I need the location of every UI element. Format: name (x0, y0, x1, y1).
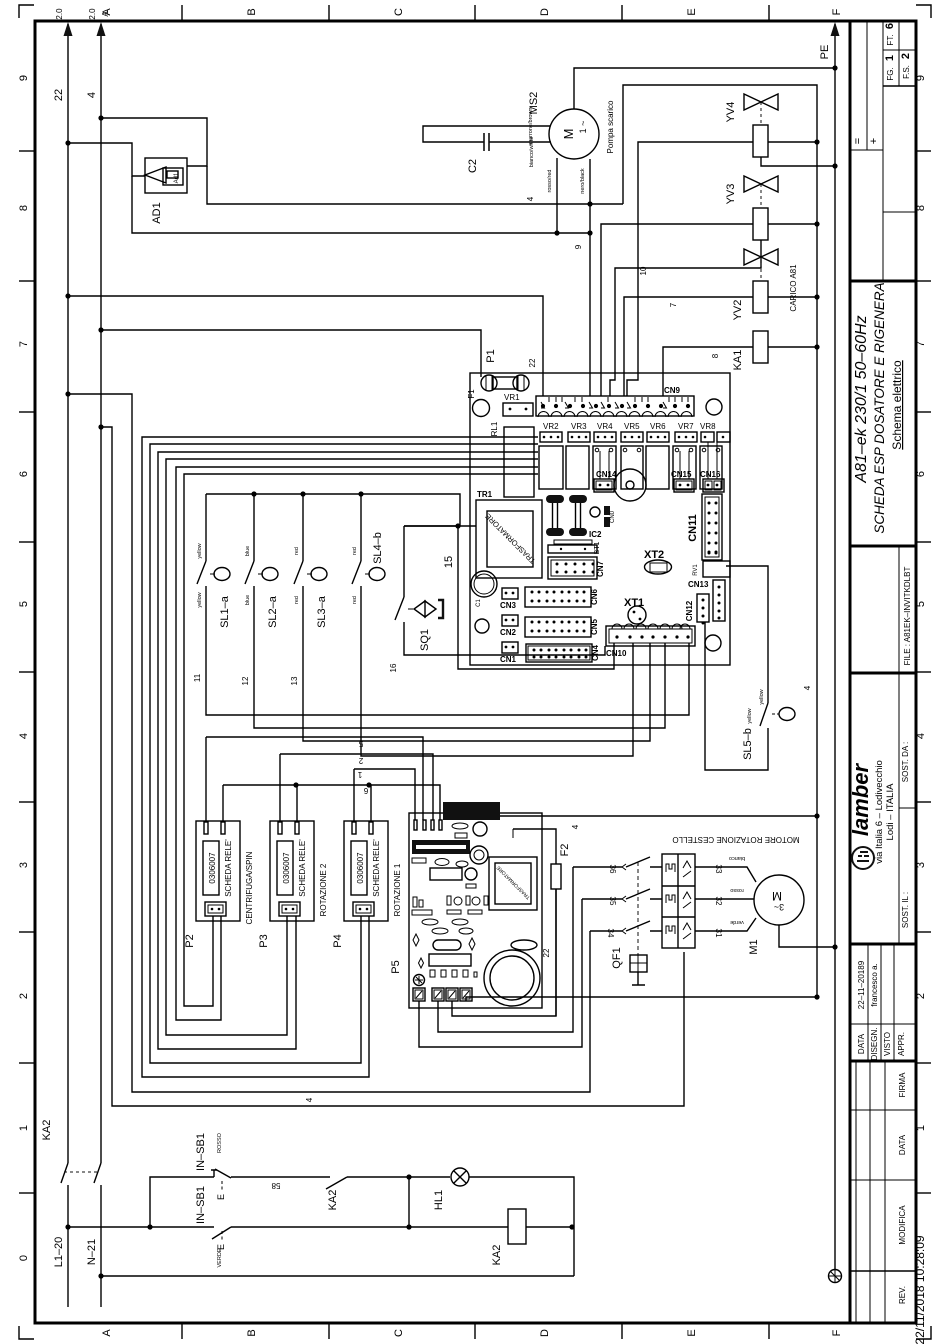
hole (475, 619, 489, 633)
capacitor C2 (484, 133, 489, 151)
level switch SL4-b (352, 494, 633, 756)
svg-text:francesco a.: francesco a. (870, 963, 879, 1007)
svg-text:verde: verde (730, 919, 744, 925)
svg-text:32: 32 (714, 897, 723, 906)
FG FT FS cells (884, 23, 912, 81)
circuit breaker QF1 (573, 857, 662, 985)
wire 22 horizontal y233 (132, 176, 593, 236)
svg-text:6: 6 (915, 471, 927, 477)
svg-text:L1–20: L1–20 (53, 1237, 65, 1268)
svg-text:PE: PE (819, 45, 831, 60)
SL common wire (206, 491, 476, 526)
svg-text:0: 0 (18, 1255, 30, 1261)
CN2 (502, 615, 518, 626)
wire 4 to rail (500, 813, 820, 829)
svg-text:CN2: CN2 (500, 628, 517, 637)
motor M1 (695, 855, 838, 955)
switch IN-SB1 verde (212, 1227, 231, 1239)
svg-text:IN–SB1: IN–SB1 (195, 1186, 207, 1224)
svg-text:E: E (686, 8, 698, 15)
right edge ticks (916, 151, 931, 1193)
motor top lead to PE (574, 68, 835, 109)
svg-text:0306007: 0306007 (208, 852, 217, 884)
svg-text:22: 22 (542, 948, 551, 957)
svg-text:Schema elettrico: Schema elettrico (890, 360, 904, 450)
svg-text:red: red (352, 547, 358, 555)
pressure switch SQ1 (389, 526, 605, 672)
fuse F2 wire 22 (513, 829, 571, 1016)
wire 4 to F1 (98, 327, 481, 377)
svg-text:P2: P2 (184, 934, 196, 947)
svg-text:CARICO A81: CARICO A81 (789, 264, 798, 312)
svg-text:6: 6 (18, 471, 30, 477)
svg-text:4: 4 (915, 733, 927, 739)
CN7 (548, 557, 597, 579)
svg-text:blue: blue (245, 595, 251, 605)
svg-text:ROTAZIONE 1: ROTAZIONE 1 (393, 863, 402, 916)
svg-text:VR2: VR2 (543, 422, 559, 431)
svg-text:SL2–a: SL2–a (267, 595, 279, 628)
svg-text:9: 9 (18, 75, 30, 81)
svg-text:Lodi – ITALIA: Lodi – ITALIA (885, 783, 896, 841)
connector CN9 (536, 396, 694, 416)
svg-text:8: 8 (711, 353, 720, 358)
svg-text:2: 2 (18, 993, 30, 999)
board P5 (390, 802, 542, 1008)
svg-text:+: + (868, 138, 880, 144)
wires 5 2 1 6 from CN4 to P boards (206, 737, 440, 820)
svg-text:22/11/2018 10:28:09: 22/11/2018 10:28:09 (913, 1235, 927, 1344)
svg-text:FIRMA: FIRMA (898, 1072, 907, 1098)
svg-text:RV1: RV1 (693, 564, 699, 576)
CN6 (525, 587, 591, 607)
svg-text:CN3: CN3 (500, 601, 517, 610)
KA2 main contact (61, 1163, 101, 1183)
svg-text:F.S.: F.S. (902, 65, 911, 79)
svg-text:ROTAZIONE 2: ROTAZIONE 2 (319, 863, 328, 916)
net4 rail right x817 (623, 85, 817, 997)
svg-text:16: 16 (389, 663, 398, 672)
svg-text:B: B (246, 1329, 258, 1336)
left edge numbers (18, 75, 30, 1261)
top edge letters (101, 8, 843, 16)
svg-text:13: 13 (290, 676, 299, 685)
svg-text:10: 10 (639, 266, 648, 275)
svg-text:2.0: 2.0 (88, 8, 97, 20)
mains taps to bus (65, 391, 684, 1106)
svg-text:blue: blue (245, 546, 251, 556)
svg-text:F: F (831, 1329, 843, 1336)
svg-text:red: red (352, 596, 358, 604)
svg-text:rosso: rosso (730, 887, 743, 893)
svg-text:BT1: BT1 (594, 541, 601, 554)
svg-text:N–21: N–21 (86, 1239, 98, 1265)
svg-text:5: 5 (358, 739, 363, 748)
svg-text:FT.: FT. (886, 34, 895, 45)
svg-text:nero/black: nero/black (580, 168, 586, 194)
svg-text:via Italia 6 – Lodivecchio: via Italia 6 – Lodivecchio (874, 760, 885, 864)
svg-text:SCHEDA ESP DOSATORE E RIGENERA: SCHEDA ESP DOSATORE E RIGENERA (872, 282, 887, 533)
svg-text:FG.: FG. (886, 67, 895, 80)
svg-text:DISEGN.: DISEGN. (870, 1028, 879, 1061)
main board P1 (467, 349, 730, 665)
mini transformer (489, 857, 537, 910)
svg-text:D: D (539, 1329, 551, 1337)
svg-text:22–11–20189: 22–11–20189 (857, 960, 866, 1009)
svg-text:red: red (294, 596, 300, 604)
level switch SL5-b (705, 566, 812, 770)
svg-text:8: 8 (18, 205, 30, 211)
svg-text:2.0: 2.0 (55, 8, 64, 20)
FILE cell (898, 546, 900, 673)
svg-text:A: A (101, 11, 110, 17)
svg-text:VISTO: VISTO (883, 1032, 892, 1056)
regulators IC (546, 495, 616, 539)
svg-text:CN7: CN7 (596, 560, 605, 577)
svg-text:=: = (852, 138, 864, 144)
svg-text:3: 3 (915, 862, 927, 868)
motor MS2 pompa scarico (423, 65, 838, 396)
svg-text:KA1: KA1 (732, 350, 744, 371)
svg-text:rosso/red: rosso/red (547, 170, 553, 193)
svg-text:VR1: VR1 (504, 393, 520, 402)
lamp HL1 (451, 1168, 469, 1186)
svg-text:QF1: QF1 (611, 947, 623, 968)
svg-text:yellow: yellow (197, 592, 203, 607)
CN12 (697, 594, 709, 622)
bottom edge ticks (182, 1323, 769, 1339)
svg-text:VR4: VR4 (597, 422, 613, 431)
left edge ticks (19, 151, 35, 1193)
svg-text:4: 4 (305, 1097, 314, 1102)
capacitor C2 loop (423, 126, 550, 142)
wire L1 (22) (67, 24, 69, 1163)
AD1 filter (65, 115, 207, 223)
svg-text:5: 5 (18, 601, 30, 607)
svg-text:CN13: CN13 (688, 580, 709, 589)
svg-text:P3: P3 (258, 934, 270, 947)
svg-text:CN0: CN0 (610, 510, 616, 523)
svg-text:KA2: KA2 (41, 1120, 53, 1141)
svg-text:HL1: HL1 (433, 1190, 445, 1210)
svg-text:SOST. DA :: SOST. DA : (901, 742, 910, 782)
svg-text:Pompa scarico: Pompa scarico (606, 100, 615, 153)
title block (848, 21, 927, 1344)
svg-text:35: 35 (608, 897, 617, 906)
lamber cell (898, 673, 900, 944)
svg-text:Ad1: Ad1 (174, 172, 180, 183)
svg-text:TR1: TR1 (477, 490, 493, 499)
svg-text:D: D (539, 8, 551, 16)
valve YV4 (627, 94, 838, 396)
svg-text:SOST. IL :: SOST. IL : (901, 892, 910, 928)
svg-text:APPR.: APPR. (897, 1032, 906, 1056)
ground symbol (829, 1270, 842, 1283)
right edge numbers (915, 75, 927, 1131)
svg-text:MODIFICA: MODIFICA (898, 1205, 907, 1245)
svg-text:5: 5 (915, 601, 927, 607)
svg-text:YV4: YV4 (725, 102, 737, 123)
bottom connectors (414, 975, 425, 986)
valve YV2 (624, 249, 820, 396)
wire 4 horizontal y204 (207, 166, 623, 207)
corner marks (19, 5, 34, 18)
ic row (429, 954, 471, 966)
svg-text:DATA: DATA (898, 1134, 907, 1155)
svg-text:CN6: CN6 (590, 588, 599, 605)
mounting hole left (473, 400, 490, 417)
level switch SL1-a (193, 494, 689, 715)
node L1 bottom (65, 1224, 70, 1229)
revision rows (855, 1061, 857, 1323)
svg-text:IC2: IC2 (589, 530, 602, 539)
wire 22 to CN9 (65, 293, 543, 396)
nero/black lead wire 9 (589, 159, 591, 396)
CN4 (526, 644, 592, 662)
svg-text:C2: C2 (467, 159, 479, 173)
small parts (452, 823, 468, 829)
svg-text:CN16: CN16 (700, 470, 721, 479)
svg-text:3: 3 (18, 862, 30, 868)
svg-text:SQ1: SQ1 (419, 629, 431, 651)
svg-text:CN1: CN1 (500, 655, 517, 664)
thermal overload block (662, 835, 800, 948)
hole bottom right (705, 635, 721, 651)
svg-text:A81–ek 230/1 50–60Hz: A81–ek 230/1 50–60Hz (853, 315, 870, 483)
svg-text:VERDE: VERDE (217, 1248, 223, 1267)
svg-text:33: 33 (714, 865, 723, 874)
P5 bottom wires (419, 867, 820, 1047)
svg-text:P5: P5 (390, 960, 402, 973)
svg-text:B: B (246, 8, 258, 15)
svg-text:VR7: VR7 (678, 422, 694, 431)
svg-text:MOTORE ROTAZIONE CESTELLO: MOTORE ROTAZIONE CESTELLO (672, 835, 799, 844)
svg-text:CENTRIFUGA/SPIN: CENTRIFUGA/SPIN (245, 851, 254, 924)
CN1 (502, 642, 518, 653)
svg-text:SCHEDA RELE': SCHEDA RELE' (224, 839, 233, 897)
svg-text:F2: F2 (559, 844, 571, 857)
svg-text:0306007: 0306007 (356, 852, 365, 884)
svg-text:M: M (772, 889, 782, 903)
wire AD1 right feed (101, 118, 207, 166)
DATA rows (867, 944, 869, 1061)
svg-text:SCHEDA RELE': SCHEDA RELE' (372, 839, 381, 897)
svg-text:CN12: CN12 (685, 600, 694, 621)
svg-text:M: M (561, 129, 576, 140)
level switch SL2-a (241, 494, 665, 728)
svg-text:VR6: VR6 (650, 422, 666, 431)
svg-text:KA2: KA2 (491, 1245, 503, 1266)
svg-text:SL4–b: SL4–b (372, 532, 384, 564)
svg-text:AD1: AD1 (151, 202, 163, 223)
lamber logo (848, 760, 896, 869)
svg-text:3~: 3~ (774, 902, 784, 912)
CN10 (606, 626, 695, 646)
valve YV3 (601, 176, 820, 396)
svg-text:VR3: VR3 (571, 422, 587, 431)
VR1 (503, 403, 533, 416)
svg-text:YV2: YV2 (732, 300, 744, 321)
svg-text:CN4: CN4 (591, 644, 600, 661)
svg-text:F: F (831, 8, 843, 15)
svg-text:REV.: REV. (898, 1286, 907, 1304)
wire AD1 left feed (68, 143, 145, 176)
svg-text:6: 6 (363, 786, 368, 795)
svg-text:7: 7 (669, 302, 678, 307)
relay board P2 (184, 737, 254, 948)
svg-text:lamber: lamber (848, 762, 873, 836)
relay board P4 (332, 769, 402, 948)
relay RL1 (504, 427, 534, 497)
svg-text:7: 7 (915, 341, 927, 347)
bottom edge letters (101, 1329, 843, 1337)
top edge ticks (182, 5, 769, 21)
svg-text:7: 7 (18, 341, 30, 347)
svg-text:VR8: VR8 (700, 422, 716, 431)
svg-text:yellow: yellow (197, 543, 203, 558)
CN3 (502, 588, 518, 599)
svg-text:0306007: 0306007 (282, 852, 291, 884)
svg-text:4: 4 (571, 824, 580, 829)
svg-text:8: 8 (915, 205, 927, 211)
capacitor C1 (471, 571, 497, 597)
wire 15 (404, 523, 614, 669)
svg-text:9: 9 (915, 75, 927, 81)
svg-text:2: 2 (900, 53, 912, 59)
svg-text:6: 6 (884, 23, 896, 29)
svg-text:1: 1 (18, 1125, 30, 1131)
svg-text:22: 22 (528, 358, 537, 367)
svg-text:1: 1 (915, 1125, 927, 1131)
svg-text:12: 12 (241, 676, 250, 685)
svg-text:2: 2 (358, 756, 363, 765)
svg-text:CN9: CN9 (664, 386, 681, 395)
top pins (414, 820, 417, 830)
battery BT1 (548, 540, 601, 554)
level switch SL3-a (290, 494, 650, 741)
CN5 (525, 617, 591, 637)
svg-text:yellow: yellow (759, 689, 765, 704)
control circuit (41, 1120, 575, 1279)
svg-text:CN11: CN11 (687, 514, 699, 542)
jog dial (484, 950, 540, 1006)
svg-text:C: C (393, 8, 405, 16)
svg-text:SCHEDA RELE': SCHEDA RELE' (298, 839, 307, 897)
svg-text:FILE : A81EK–INVITKDLBT: FILE : A81EK–INVITKDLBT (903, 567, 912, 666)
svg-text:DATA: DATA (857, 1033, 866, 1054)
svg-text:C: C (393, 1329, 405, 1337)
coil KA2 (508, 1209, 526, 1244)
svg-text:VR5: VR5 (624, 422, 640, 431)
small pads (412, 896, 488, 934)
svg-text:F1: F1 (467, 389, 476, 399)
svg-text:1: 1 (884, 55, 896, 61)
svg-text:E: E (686, 1329, 698, 1336)
svg-text:bianco: bianco (729, 855, 745, 861)
svg-text:CN14: CN14 (596, 470, 617, 479)
relay row (539, 446, 722, 489)
CN11 (702, 494, 722, 560)
svg-text:RL1: RL1 (490, 421, 499, 436)
svg-text:ROSSO: ROSSO (217, 1132, 223, 1153)
mounting hole right (706, 399, 722, 415)
svg-text:9: 9 (574, 244, 583, 249)
big title (853, 282, 904, 533)
svg-text:36: 36 (608, 865, 617, 874)
svg-text:CN5: CN5 (590, 618, 599, 635)
svg-text:red: red (294, 547, 300, 555)
svg-text:A: A (101, 1329, 113, 1337)
PE wire right (819, 22, 842, 1283)
svg-text:34: 34 (606, 929, 615, 938)
svg-text:SL1–a: SL1–a (219, 595, 231, 628)
svg-text:1 ~: 1 ~ (578, 121, 588, 134)
svg-text:58: 58 (271, 1181, 280, 1190)
wire 10 from YV3 coil bottom (610, 240, 761, 396)
svg-text:P4: P4 (332, 934, 344, 947)
svg-text:C1: C1 (476, 599, 482, 607)
wire N (4) (100, 24, 102, 1163)
svg-text:15: 15 (443, 556, 455, 568)
mains wires (53, 8, 110, 1307)
KA2 aux contact (326, 1177, 347, 1189)
black module (443, 802, 500, 820)
svg-text:bianco/white: bianco/white (529, 137, 535, 168)
svg-text:M1: M1 (748, 939, 760, 954)
fuse F1 (481, 375, 497, 391)
svg-text:2: 2 (915, 993, 927, 999)
svg-text:XT2: XT2 (644, 549, 664, 561)
svg-text:31: 31 (714, 929, 723, 938)
svg-text:E: E (216, 1194, 226, 1200)
svg-text:22: 22 (53, 89, 65, 101)
svg-text:YV3: YV3 (725, 184, 737, 205)
svg-text:SL5–b: SL5–b (742, 728, 754, 760)
svg-text:KA2: KA2 (327, 1190, 339, 1211)
svg-text:yellow: yellow (747, 708, 753, 723)
svg-text:1: 1 (357, 770, 362, 779)
svg-text:4: 4 (803, 685, 812, 690)
RL1 output wires to bus (142, 437, 538, 1077)
relay coil KA1 (663, 331, 820, 396)
relay board P3 (258, 754, 328, 948)
svg-text:11: 11 (193, 673, 202, 682)
buzzer (614, 469, 646, 501)
rosso/red lead (556, 158, 558, 233)
N return (98, 1273, 103, 1278)
svg-text:4: 4 (526, 196, 535, 201)
switch IN-SB1 rosso (211, 1170, 217, 1177)
svg-text:P1: P1 (485, 349, 497, 362)
svg-text:4: 4 (18, 733, 30, 739)
svg-text:SL3–a: SL3–a (316, 595, 328, 628)
svg-text:4: 4 (86, 92, 98, 98)
VR2..VR8 (540, 422, 730, 442)
svg-text:CN10: CN10 (606, 649, 627, 658)
svg-text:IN–SB1: IN–SB1 (195, 1133, 207, 1171)
